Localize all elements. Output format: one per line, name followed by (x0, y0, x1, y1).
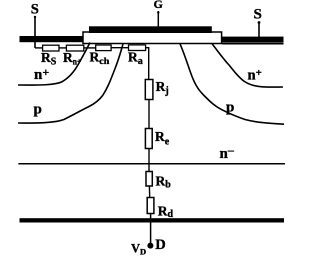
resistor R_S (43, 45, 59, 51)
epi/substrate interface line (18, 163, 285, 165)
svg-text:n+: n+ (248, 67, 262, 83)
wire R_a elbow down to R_j (146, 48, 149, 80)
resistor R_n+ (66, 45, 83, 51)
node D dot (147, 243, 153, 249)
wire R_n+ to R_ch (84, 47, 96, 49)
svg-text:D: D (155, 237, 165, 253)
svg-text:p: p (226, 100, 234, 116)
wire R_j to R_e (148, 100, 150, 129)
silicon surface line (right) (222, 43, 284, 45)
svg-text:S: S (31, 2, 39, 18)
wire R_b to R_d (148, 186, 150, 198)
gate metal bar (89, 26, 212, 33)
node dot on G lead (157, 11, 159, 13)
node dot on S right lead (258, 21, 261, 24)
svg-text:S: S (254, 7, 262, 23)
n+ diffusion boundary (left) (18, 43, 90, 86)
svg-text:Re: Re (155, 129, 170, 148)
gate oxide box (83, 32, 222, 44)
svg-text:Rch: Rch (90, 50, 111, 68)
resistor R_b (146, 172, 152, 187)
wire R_e to R_b (148, 149, 150, 172)
svg-text:Ra: Ra (128, 50, 143, 68)
svg-text:Rj: Rj (156, 79, 169, 97)
drain metal bar (bottom) (20, 218, 285, 222)
wire: G lead (157, 11, 159, 30)
svg-text:Rb: Rb (156, 174, 172, 191)
wire R_S to R_n+ (59, 47, 66, 49)
svg-text:n+: n+ (34, 65, 49, 83)
svg-text:G: G (154, 0, 163, 11)
n+ diffusion boundary (right) (212, 44, 283, 87)
source metal bar (left) (20, 36, 84, 42)
wire: S lead elbow to R_S (35, 47, 43, 49)
resistor R_e (145, 129, 152, 149)
p-well boundary (left) (18, 44, 123, 123)
svg-text:n–: n– (220, 143, 235, 162)
wire: S right lead (258, 23, 260, 40)
resistor R_ch (96, 45, 111, 51)
source metal bar (right) (222, 37, 284, 43)
wire R_ch to R_a (111, 47, 128, 49)
svg-text:Rd: Rd (158, 204, 174, 221)
svg-text:p: p (34, 102, 42, 118)
resistor R_j (145, 80, 153, 100)
node dot on S left lead (34, 16, 36, 18)
resistor R_a (129, 45, 146, 51)
wire R_d to node D (150, 214, 152, 244)
svg-text:VD: VD (131, 241, 146, 256)
p-well boundary (right) (180, 44, 284, 124)
resistor R_d (147, 198, 154, 214)
wire: S left lead (34, 17, 36, 49)
